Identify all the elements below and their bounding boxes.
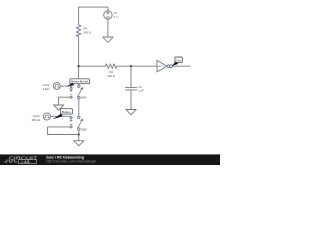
svg-text:http://circuitlab.com/c/v8dskd: http://circuitlab.com/c/v8dskdbsjs6 [46,160,96,164]
junction dot below SW5 [78,133,80,135]
SW5 plus control terminal [70,117,72,119]
capacitor C1 plates [125,87,136,90]
wire R1 top lead [78,7,80,25]
wire behind noise box to SW4 top contact [78,84,80,85]
V1 minus sign [107,16,110,18]
wire SW4 bottom to SW5 top [78,99,80,117]
flag Out box [172,57,183,66]
component labels [32,11,165,131]
svg-text:CLK4: CLK4 [33,114,40,118]
wire CLK2 to SW4 control [60,86,71,87]
wire SW5 bottom contact down to ground [78,130,80,140]
ground under C1 [126,110,136,115]
SW5 top contact [78,116,80,118]
SW5 plus sign [70,119,72,121]
wire R2 to node [117,65,131,67]
node dot at R2/C1 [130,65,132,67]
resistor R2 body [105,64,117,69]
wire top: R1 top to V1 top [79,7,108,11]
clock CLK2 circle [53,82,60,89]
SW4 lever [78,88,83,97]
svg-text:Button: Button [62,110,72,114]
SW5 bottom contact [78,128,80,130]
capacitor C1 top lead [130,66,132,87]
wire CLK4 to SW5 control [51,115,72,117]
SW5 minus control terminal [70,126,72,128]
wire R1 bottom lead to junction [78,36,80,66]
ground for SW4 control [54,105,64,110]
wire output to right [172,65,190,67]
svg-text:NOT1: NOT1 [158,66,165,68]
inverter bubble [167,65,169,67]
wire junction to R2 [79,65,106,67]
wire junction down to noise model box [78,66,80,79]
wire SW4 minus to ground [59,97,71,105]
SW5 minus sign [70,124,72,126]
SW5 lever [78,119,83,128]
wire node to inverter [131,65,157,67]
flag Noise Model box [67,79,90,87]
svg-text:CLK2: CLK2 [43,83,50,87]
svg-text:V1: V1 [114,11,118,15]
SW4 top contact [78,85,80,87]
resistor R4 body [76,25,81,37]
flag Button box [53,109,73,120]
svg-text:1 µF: 1 µF [138,88,144,92]
button pointer arrow [53,114,63,119]
footer bar [0,154,220,165]
V1 bottom stub [107,19,109,37]
svg-text:R2: R2 [110,70,114,74]
footer logo waveform [4,160,17,162]
SW4 plus sign [70,90,72,92]
junction dot at R1/R2 [77,65,79,67]
svg-text:200 Ω: 200 Ω [84,31,91,35]
svg-text:LAB: LAB [22,160,31,164]
ground under V1 [103,37,113,43]
svg-text:200 Ω: 200 Ω [108,74,115,78]
svg-text:1 kHz: 1 kHz [43,87,51,91]
capacitor C1 bottom lead [130,90,132,110]
svg-text:SW4: SW4 [81,96,87,100]
SW4 minus control terminal [70,96,72,98]
inverter U1 triangle [157,60,167,72]
wire SW5 minus control to bottom junction [48,127,79,135]
CLK4 squarewave glyph [45,115,50,118]
inverter output terminal circle [170,65,173,68]
CLK2 squarewave glyph [54,85,59,88]
svg-text:R4: R4 [84,27,88,31]
V1 plus sign [107,12,110,15]
svg-text:Noise Model: Noise Model [71,80,89,84]
svg-text:5 V: 5 V [114,15,118,19]
SW4 plus control terminal [70,87,72,89]
noise model pointer arrow [67,83,75,87]
ground under SW5 [74,141,84,146]
svg-text:SW5: SW5 [81,128,87,132]
svg-text:200 Hz: 200 Hz [32,118,41,122]
footer logo LAB box [18,160,36,164]
voltage source V1 circle [104,11,112,19]
SW4 bottom contact [78,96,80,98]
svg-text:Out: Out [176,58,181,62]
SW4 minus sign [70,94,72,96]
out pointer arrow [172,62,179,67]
clock CLK4 circle [43,113,50,120]
